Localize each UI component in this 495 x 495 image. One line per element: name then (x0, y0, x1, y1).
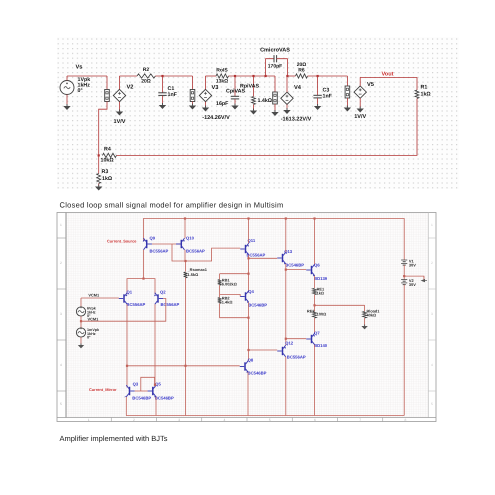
svg-text:0°: 0° (78, 88, 83, 94)
wire V4 output stub to rail (286, 76, 288, 92)
resistor RoIS (216, 74, 229, 78)
node junction bias bus at Rsomax1 (184, 260, 186, 262)
wire Q8 emitter to VEE rail (247, 372, 249, 415)
dependent source V5 (354, 86, 366, 98)
ground below RpiVAS (253, 109, 255, 111)
ground below V5 input port (346, 106, 348, 108)
resistor RE2 (313, 311, 317, 318)
svg-text:20Ω: 20Ω (141, 79, 151, 85)
svg-text:1nF: 1nF (323, 94, 333, 100)
wire Q6 emitter to RE1 (314, 276, 316, 288)
ground below V4 (286, 108, 288, 110)
ground below CpiVAS (234, 104, 236, 106)
wire CmicroVAS left leg (266, 59, 274, 76)
svg-text:3: 3 (60, 312, 62, 316)
wire Q11 collector down VAS column (248, 255, 250, 293)
node junction Q6 base tap (285, 269, 287, 271)
node junction diff pair tail (142, 278, 144, 280)
svg-text:30V: 30V (409, 262, 416, 267)
svg-text:BC546BP: BC546BP (155, 395, 174, 400)
wire RpiVAS to ground (253, 105, 255, 111)
node junction Q10 emitter on VCC rail (184, 217, 186, 219)
wire V3 bottom to ground (205, 102, 207, 107)
transistor Q8 (244, 362, 246, 370)
capacitor CmicroVAS (273, 55, 275, 62)
wire C3 top lead (317, 76, 319, 95)
wire V2 input bottom to feedback node (99, 102, 107, 156)
svg-text:5: 5 (60, 402, 62, 406)
wire Q2 collector to current mirror (154, 304, 156, 387)
wire to Q6 base (286, 269, 306, 271)
svg-text:RpiVAS: RpiVAS (240, 84, 259, 90)
svg-text:Vout: Vout (381, 72, 393, 78)
svg-text:BC546BP: BC546BP (248, 370, 267, 375)
svg-text:3: 3 (178, 418, 180, 422)
svg-text:10kΩ: 10kΩ (101, 158, 115, 164)
svg-text:4: 4 (60, 363, 62, 367)
wire Q3 emitter to VEE rail (125, 397, 127, 416)
capacitor C1 (158, 92, 166, 94)
svg-text:1.4kΩ: 1.4kΩ (258, 98, 273, 104)
resistor R3 (97, 174, 101, 184)
svg-text:2: 2 (133, 418, 135, 422)
svg-text:Vs: Vs (76, 65, 83, 71)
svg-text:Current_Source: Current_Source (107, 239, 137, 244)
wire Q1 base to VCM1 input (81, 297, 119, 299)
source VCM1 upper 6Vpk (80, 298, 82, 307)
svg-text:-124.26V/V: -124.26V/V (202, 115, 230, 121)
svg-text:R2: R2 (143, 67, 150, 73)
source lower 1mVpk (80, 321, 82, 328)
wire V3 input port to ground (192, 102, 194, 106)
svg-text:30V: 30V (409, 282, 416, 287)
node junction RB1 top tap (247, 273, 249, 275)
node junction at RpiVAS tap (252, 75, 254, 77)
wire diff pair tail (127, 279, 155, 294)
wire output node to Rload1 (315, 304, 365, 306)
resistor R2 (137, 74, 155, 78)
svg-text:BC546BP: BC546BP (285, 263, 304, 268)
svg-text:1: 1 (431, 223, 433, 227)
wire Q8 base (127, 365, 240, 367)
dependent source V4 (281, 92, 293, 104)
dependent source V3 (199, 89, 211, 101)
svg-text:7: 7 (359, 418, 361, 422)
svg-text:5: 5 (431, 402, 433, 406)
node junction Q6 collector on VCC rail (313, 217, 315, 219)
svg-text:BC546BP: BC546BP (248, 302, 267, 307)
svg-text:BC556AP: BC556AP (127, 302, 146, 307)
svg-text:Amplifier implemented with BJT: Amplifier implemented with BJTs (60, 434, 168, 443)
ground below R3 (98, 185, 100, 187)
resistor Rsomax1 (185, 261, 187, 272)
dependent source V2 input port (105, 90, 110, 102)
wire Q13 collector to VCC rail (285, 219, 287, 253)
capacitor C3 (313, 94, 321, 96)
svg-text:-1613.22V/V: -1613.22V/V (281, 117, 312, 123)
dependent source V3 input port (192, 76, 194, 90)
resistor R1 (415, 90, 419, 99)
ground below lower source (80, 344, 82, 346)
svg-text:R4: R4 (104, 147, 111, 153)
svg-text:1kΩ: 1kΩ (421, 92, 432, 98)
top schematic dotted grid background (57, 37, 459, 189)
transistor Q2 (157, 294, 159, 302)
svg-text:Q1: Q1 (127, 289, 133, 294)
svg-text:V4: V4 (294, 85, 302, 91)
wire V3 to RoIS (206, 75, 217, 77)
wire lower source to ground (80, 337, 82, 344)
svg-text:Q6: Q6 (314, 262, 320, 267)
svg-text:1nF: 1nF (168, 92, 178, 98)
node junction Q12 base tap (247, 349, 249, 351)
node junction R4 R3 feedback (98, 154, 100, 156)
wire Q13 emitter bias chain (285, 264, 287, 345)
resistor Rload1 (364, 305, 366, 311)
ground below V4 input port (274, 110, 276, 112)
svg-text:BD139: BD139 (314, 276, 328, 281)
ground below C1 (162, 103, 164, 105)
svg-text:0°: 0° (87, 336, 91, 340)
svg-text:1kΩ: 1kΩ (102, 176, 113, 182)
wire Q12 collector to VEE rail (285, 357, 287, 416)
svg-text:5: 5 (269, 418, 271, 422)
svg-text:BC556AP: BC556AP (287, 355, 306, 360)
wire CpiVAS top lead (234, 76, 236, 96)
svg-text:40kΩ: 40kΩ (367, 313, 377, 318)
ground right of battery V2 (421, 276, 427, 282)
wire mirror base bus (135, 390, 148, 392)
wire RpiVAS top lead (253, 76, 255, 97)
svg-text:RE2: RE2 (307, 308, 315, 313)
transistor Q11 (245, 245, 247, 253)
svg-text:BD140: BD140 (314, 343, 328, 348)
svg-text:1: 1 (88, 418, 90, 422)
resistor R6 (296, 74, 308, 78)
node junction Q13 collector on VCC rail (285, 217, 287, 219)
wire mirror diode connection loop (141, 377, 155, 391)
transistor Q1 (123, 294, 125, 302)
wire CpiVAS to ground (234, 99, 236, 105)
node junction RB2 bottom (247, 317, 249, 319)
wire C1 top lead (162, 76, 164, 93)
wire Rload1 to ground (364, 318, 366, 326)
svg-text:BC556AP: BC556AP (150, 249, 169, 254)
feedback wire R1 bottom to R4 (117, 99, 418, 156)
wire V3 output stub to rail (205, 76, 207, 89)
svg-text:3: 3 (431, 312, 433, 316)
node junction at C3 tap (317, 75, 319, 77)
wire RE1 to output node (314, 295, 316, 312)
svg-text:16pF: 16pF (216, 101, 229, 107)
resistor RpiVAS (252, 97, 256, 105)
transistor Q10 (181, 240, 183, 248)
wire R2 to V3 input (155, 75, 192, 77)
wire C3 to ground (317, 98, 319, 105)
node junction Q8 base at Rsomax1 column (184, 365, 186, 367)
node junction at V4 output (286, 75, 288, 77)
svg-text:1V/V: 1V/V (114, 119, 126, 125)
svg-text:Q5: Q5 (155, 381, 161, 386)
ground below V5 (359, 107, 361, 109)
wire Vs bottom to ground (66, 95, 68, 106)
svg-text:Q10: Q10 (186, 235, 195, 240)
svg-text:VCM1: VCM1 (88, 316, 100, 321)
wire to Q13 base (249, 257, 278, 259)
wire V2 battery to VEE rail (403, 285, 405, 416)
wire RB1 to RB2 junction (219, 285, 221, 297)
svg-text:6: 6 (314, 418, 316, 422)
svg-text:R1: R1 (421, 85, 428, 91)
wire CmicroVAS right leg (277, 59, 288, 76)
sheet border frame (57, 213, 436, 422)
svg-text:VCM1: VCM1 (88, 293, 100, 298)
svg-text:V2: V2 (127, 85, 134, 91)
wire RoIS to V4 input (229, 75, 276, 77)
wire RE2 to Q7 emitter (314, 318, 316, 333)
battery V2 (401, 279, 407, 281)
wire Q1 collector to current mirror (126, 304, 128, 387)
wire V1 to V2 battery (403, 265, 405, 279)
svg-text:8: 8 (404, 418, 406, 422)
node junction Q13 base tap (247, 257, 249, 259)
wire V4 input port to ground (274, 104, 276, 112)
transistor Q6 (311, 266, 313, 274)
transistor Q9 (146, 240, 148, 248)
svg-text:BC556AP: BC556AP (247, 252, 266, 257)
wire RB1 top (220, 273, 249, 275)
node junction at C1 tap (161, 75, 163, 77)
transistor Q13 (282, 254, 284, 262)
svg-text:Q9: Q9 (150, 235, 156, 240)
node junction Q1 collector to Q8 base wire (126, 365, 128, 367)
svg-text:1kΩ: 1kΩ (317, 291, 324, 296)
node junction at CmicroVAS left leg (265, 75, 267, 77)
wire Q5 emitter to VEE rail (155, 397, 157, 416)
wire Q9 collector to diff pair tail (143, 250, 145, 279)
ground below V3 input port (192, 104, 194, 106)
svg-text:BC556AP: BC556AP (186, 249, 205, 254)
wire V2 bottom to ground (119, 102, 121, 111)
svg-text:4: 4 (431, 363, 433, 367)
svg-text:170pF: 170pF (268, 64, 282, 70)
wire Q10 emitter to VCC rail (184, 219, 186, 239)
svg-text:BC556AP: BC556AP (161, 302, 180, 307)
svg-text:1V/V: 1V/V (354, 114, 366, 120)
sheet background mesh grid (66, 213, 428, 418)
svg-text:R6: R6 (298, 68, 305, 74)
svg-text:BC546BP: BC546BP (132, 395, 151, 400)
svg-text:Q7: Q7 (314, 330, 320, 335)
ground below Rload1 (364, 325, 366, 327)
resistor R4 (102, 153, 116, 157)
dependent source V5 input port (346, 76, 348, 86)
wire V5 input port to ground (346, 98, 348, 107)
wire Q9 base to Q10 base (152, 243, 181, 245)
wire Q10 diode connection loop (172, 244, 186, 261)
svg-text:4: 4 (223, 418, 225, 422)
svg-text:Q3: Q3 (133, 381, 139, 386)
wire VCC top rail (144, 219, 405, 261)
resistor RE1 (313, 288, 317, 294)
wire bias bus to Q11 base (186, 248, 241, 261)
capacitor CpiVAS (231, 95, 239, 97)
svg-text:Q2: Q2 (160, 289, 166, 294)
wire to Q12 base (249, 349, 278, 351)
wire V2 output stub to rail (119, 76, 121, 89)
wire VEE bottom rail (126, 415, 404, 417)
wire C1 to ground (162, 96, 164, 105)
node junction Q7 base tap (285, 338, 287, 340)
wire R3 to ground (98, 184, 100, 187)
svg-text:1: 1 (60, 223, 62, 227)
svg-text:Q12: Q12 (285, 341, 294, 346)
wire junction to R3 (98, 155, 100, 173)
wire to Q7 base (286, 338, 306, 340)
resistor RB2 (218, 298, 222, 304)
wire V5 bottom to ground (359, 98, 361, 108)
svg-text:Q4: Q4 (248, 289, 254, 294)
svg-text:2: 2 (431, 261, 433, 265)
wire V4 bottom to ground (286, 105, 288, 110)
wire R6 to V5 input (308, 75, 348, 77)
svg-text:Q8: Q8 (248, 357, 254, 362)
wire V2 to R2 (120, 75, 138, 77)
wire V4 to R6 (287, 75, 295, 77)
battery V1 (401, 259, 407, 261)
svg-text:RoIS: RoIS (216, 68, 228, 74)
svg-text:Current_Mirror: Current_Mirror (89, 387, 117, 392)
resistor RB1 (219, 274, 221, 280)
svg-text:1.4kΩ: 1.4kΩ (222, 300, 233, 305)
transistor Q12 (282, 347, 284, 355)
svg-text:100Ω: 100Ω (317, 311, 327, 316)
dependent source V2 (113, 89, 125, 101)
wire Q7 collector to VEE rail (314, 345, 316, 416)
dependent source V4 input port (274, 76, 276, 92)
transistor Q5 (152, 387, 154, 395)
ground below C3 (317, 104, 319, 106)
wire Q4 emitter down to Q8 (248, 302, 250, 360)
svg-text:2: 2 (60, 261, 62, 265)
wire Q10 collector to bias bus (184, 250, 186, 261)
svg-text:V3: V3 (212, 85, 219, 91)
ground below Vs (66, 104, 68, 106)
wire between sources and Q2 base route (80, 316, 82, 321)
node junction Q11 emitter on VCC rail (247, 217, 249, 219)
node junction VCM1 lower (80, 320, 82, 322)
node junction at CpiVAS tap (234, 75, 236, 77)
svg-text:Closed loop small signal model: Closed loop small signal model for ampli… (60, 201, 284, 210)
svg-text:6.002kΩ: 6.002kΩ (222, 282, 237, 287)
node junction output node (313, 304, 315, 306)
wire divider tap to Q4 base (220, 295, 241, 297)
transistor Q4 (245, 292, 247, 300)
svg-text:13kΩ: 13kΩ (216, 79, 228, 85)
svg-text:1.5kΩ: 1.5kΩ (188, 272, 199, 277)
wire Q6 collector to VCC rail (314, 219, 316, 265)
node junction mirror diode to Q2 collector (154, 384, 156, 386)
wire Vs top to V2 input (66, 76, 68, 81)
voltage source Vs (60, 81, 74, 95)
wire RB2 bottom to Q4 emitter (220, 304, 249, 318)
wire Q11 emitter to VCC rail (248, 219, 250, 244)
wire battery midpoint to ground (404, 276, 424, 281)
svg-text:CmicroVAS: CmicroVAS (260, 48, 290, 54)
transistor Q3 (129, 387, 131, 395)
node junction battery midpoint (403, 275, 405, 277)
wire V5 output to R1 - net Vout (360, 78, 417, 91)
transistor Q7 (311, 335, 313, 343)
svg-text:V5: V5 (367, 82, 374, 88)
ground below V3 (205, 106, 207, 108)
ground below V2 (119, 110, 121, 112)
wire Rsomax1 bottom to VEE rail (185, 278, 187, 416)
svg-text:R3: R3 (102, 169, 109, 175)
